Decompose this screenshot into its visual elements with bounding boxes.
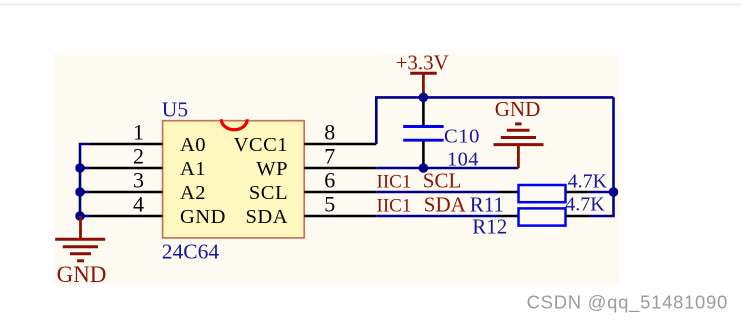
pin 1 lead — [90, 143, 163, 146]
svg-text:2: 2 — [133, 144, 144, 169]
svg-text:7: 7 — [324, 144, 335, 169]
svg-text:VCC1: VCC1 — [234, 134, 288, 156]
ground GND mid: bar 3 — [507, 129, 530, 132]
resistor R12 left pin — [499, 215, 519, 218]
svg-text:5: 5 — [324, 192, 335, 217]
svg-text:4: 4 — [133, 192, 144, 217]
ground GND left: bar 1 — [55, 238, 105, 241]
schematic sheet — [54, 54, 620, 285]
resistor R12 body — [519, 208, 566, 225]
wire SDA net — [376, 215, 499, 218]
ground GND left: bar 3 — [70, 252, 91, 255]
capacitor C10 top plate — [403, 125, 443, 128]
junction +3.3V top wire — [419, 93, 429, 103]
ground GND mid: bar 2 — [501, 136, 536, 139]
power +3.3V: bar — [410, 72, 437, 75]
svg-text:3: 3 — [133, 168, 144, 193]
svg-text:6: 6 — [324, 168, 335, 193]
svg-text:U5: U5 — [162, 97, 188, 121]
resistor R12 right pin — [566, 215, 590, 218]
junction pin3 rail — [75, 187, 85, 197]
top hairline — [0, 4, 741, 6]
wire SCL net — [376, 191, 499, 194]
resistor R11 body — [519, 185, 566, 202]
polarity notch arc on U5 — [221, 119, 247, 130]
svg-text:24C64: 24C64 — [162, 240, 220, 264]
resistor R11 left pin — [499, 191, 519, 194]
pin 6 lead — [304, 191, 376, 194]
svg-text:GND: GND — [495, 97, 541, 121]
ground GND mid: bar 1 wide — [494, 143, 544, 146]
pin 3 lead — [90, 191, 163, 194]
svg-text:R12: R12 — [472, 214, 507, 238]
ground GND left: stem — [79, 216, 82, 239]
svg-text:4.7K: 4.7K — [568, 170, 608, 192]
capacitor C10 bottom lead — [422, 141, 425, 168]
wire stub pin4 — [80, 215, 90, 218]
wire right vertical rail — [589, 97, 614, 216]
svg-text:4.7K: 4.7K — [565, 194, 605, 216]
pin 5 lead — [304, 215, 376, 218]
junction C10 bottom — [419, 163, 429, 173]
svg-text:A2: A2 — [180, 182, 206, 204]
svg-text:R11: R11 — [470, 192, 504, 216]
svg-text:SCL: SCL — [423, 169, 462, 193]
ground GND mid: bar 4 small — [515, 122, 522, 125]
pin 4 lead — [90, 215, 163, 218]
junction pin2 rail — [75, 163, 85, 173]
wire stub pin2 — [80, 167, 90, 170]
svg-text:GND: GND — [180, 206, 226, 228]
chip U5 body — [163, 121, 305, 238]
svg-text:IIC1: IIC1 — [377, 196, 412, 217]
svg-text:WP: WP — [256, 158, 288, 180]
svg-text:SDA: SDA — [245, 206, 288, 228]
pin 2 lead — [90, 167, 163, 170]
svg-text:C10: C10 — [444, 126, 480, 148]
ground GND left: bar 2 — [63, 245, 98, 248]
wire R11 right to rail — [589, 191, 614, 194]
junction R11 rail — [609, 187, 619, 197]
svg-text:A1: A1 — [180, 158, 206, 180]
svg-text:8: 8 — [324, 120, 335, 145]
ground GND left: bar 4 — [77, 259, 84, 262]
svg-text:+3.3V: +3.3V — [396, 50, 449, 74]
wire left vertical rail — [80, 144, 90, 216]
svg-text:SCL: SCL — [249, 182, 288, 204]
pin 8 lead — [304, 143, 376, 146]
power +3.3V: stem — [422, 73, 425, 97]
capacitor C10 bottom plate — [403, 139, 443, 142]
ground GND mid: stem — [517, 145, 520, 168]
junction pin4 rail — [75, 211, 85, 221]
wire stub pin3 — [80, 191, 90, 194]
svg-text:1: 1 — [133, 120, 144, 145]
resistor R11 right pin — [566, 191, 590, 194]
capacitor C10 top lead — [422, 97, 425, 126]
svg-text:IIC1: IIC1 — [377, 172, 412, 193]
svg-text:SDA: SDA — [424, 193, 467, 217]
wire WP net — [376, 167, 518, 170]
svg-text:GND: GND — [57, 262, 107, 287]
svg-text:104: 104 — [447, 148, 479, 170]
svg-text:A0: A0 — [180, 134, 206, 156]
svg-text:CSDN @qq_51481090: CSDN @qq_51481090 — [527, 292, 728, 314]
pin 7 lead — [304, 167, 376, 170]
wire VCC riser pin8 — [376, 97, 613, 144]
